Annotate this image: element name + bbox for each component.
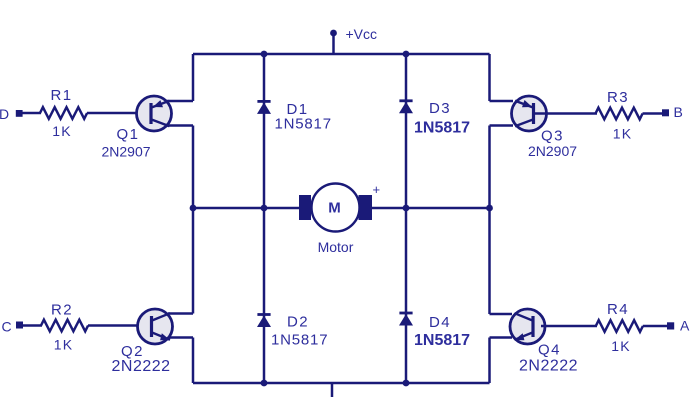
junction dot motor rail / right vertical	[486, 205, 493, 212]
terminal D	[16, 110, 23, 117]
svg-text:R3: R3	[607, 89, 629, 106]
wire C to R2	[23, 324, 43, 327]
wire right vertical upper (Q3 emitter to top rail)	[488, 54, 491, 101]
svg-text:D: D	[0, 106, 9, 122]
junction dot motor rail / left vertical	[190, 205, 197, 212]
svg-text:1K: 1K	[613, 126, 633, 142]
wire +Vcc stub	[332, 33, 335, 54]
svg-text:R4: R4	[607, 301, 629, 318]
wire D2 branch	[263, 208, 266, 383]
svg-text:2N2222: 2N2222	[112, 358, 171, 375]
diode D2 1N5817	[257, 313, 328, 348]
wire Q4 collector stub	[490, 313, 513, 316]
transistor Q4 2N2222 (NPN)	[510, 309, 578, 374]
svg-text:2N2907: 2N2907	[102, 144, 151, 160]
svg-text:2N2907: 2N2907	[528, 143, 577, 159]
resistor R3	[596, 108, 643, 120]
svg-text:1N5817: 1N5817	[275, 115, 332, 132]
transistor Q3 2N2907 (PNP)	[512, 96, 578, 159]
svg-text:+Vcc: +Vcc	[346, 26, 378, 42]
wire motor rail left	[193, 207, 300, 210]
svg-text:2N2222: 2N2222	[519, 357, 578, 374]
svg-text:C: C	[2, 319, 12, 335]
junction dot motor rail / D1-D2	[261, 205, 268, 212]
svg-text:Motor: Motor	[318, 239, 354, 255]
wire R3 to terminal B	[643, 112, 663, 115]
junction dot bottom rail / D2	[261, 380, 268, 387]
junction dot bottom rail / D4	[403, 380, 410, 387]
svg-text:D4: D4	[429, 314, 451, 331]
wire bottom rail	[193, 382, 490, 385]
wire Q2 emitter stub	[168, 336, 193, 339]
+Vcc terminal dot	[330, 30, 337, 37]
svg-text:1N5817: 1N5817	[271, 331, 328, 348]
wire Q3 base to R3	[535, 112, 597, 115]
junction dot top rail / D1	[261, 51, 268, 58]
wire R2 to Q2 base	[88, 324, 152, 327]
wire D3 branch	[405, 54, 408, 208]
svg-text:1N5817: 1N5817	[414, 120, 470, 137]
wire right vertical lower (Q4 emitter to bottom rail)	[488, 338, 491, 384]
wire D1 branch	[263, 54, 266, 208]
wire R4 to terminal A	[643, 325, 667, 328]
wire D4 branch	[405, 208, 408, 383]
svg-text:R2: R2	[51, 302, 73, 319]
wire top rail	[193, 53, 490, 56]
diode D3 1N5817	[399, 100, 470, 137]
svg-text:Q4: Q4	[538, 342, 561, 359]
svg-text:1K: 1K	[611, 338, 631, 354]
junction dot motor rail / D3-D4	[403, 205, 410, 212]
wire right vertical middle (Q3 collector to Q4 collector)	[488, 126, 491, 315]
wire ground stub	[331, 383, 334, 397]
svg-text:Q3: Q3	[541, 128, 564, 145]
resistor R2	[41, 320, 88, 332]
resistor R4	[596, 320, 643, 332]
svg-text:D2: D2	[287, 313, 309, 330]
wire motor rail right	[371, 207, 490, 210]
transistor Q1 2N2907 (PNP)	[102, 96, 172, 160]
junction dot top rail / D3	[403, 51, 410, 58]
terminal B	[662, 109, 669, 116]
terminal C	[16, 322, 23, 329]
diode D4 1N5817	[399, 313, 470, 349]
wire D to R1	[23, 112, 42, 115]
wire left vertical lower (Q2 emitter to bottom rail)	[192, 338, 195, 384]
wire Q1 collector stub	[167, 124, 193, 127]
wire Q2 collector stub	[168, 312, 193, 315]
svg-text:+: +	[373, 182, 381, 197]
resistor R1	[40, 107, 87, 119]
svg-text:A: A	[680, 318, 690, 334]
svg-text:1K: 1K	[52, 123, 72, 139]
wire left vertical upper (Q1 emitter to top rail)	[192, 54, 195, 101]
wire Q4 emitter stub	[490, 336, 513, 339]
wire left vertical middle (Q1 collector to Q2 collector)	[192, 126, 195, 314]
svg-text:1K: 1K	[54, 337, 74, 353]
motor M	[299, 182, 380, 255]
terminal A	[667, 322, 674, 329]
svg-text:M: M	[328, 200, 341, 217]
diode D1 1N5817	[257, 101, 332, 132]
svg-text:B: B	[674, 104, 683, 120]
wire R1 to Q1 base	[87, 112, 151, 115]
svg-text:D3: D3	[429, 100, 451, 117]
svg-text:1N5817: 1N5817	[414, 332, 470, 349]
wire Q3 emitter stub	[490, 100, 514, 103]
svg-text:Q1: Q1	[117, 126, 140, 143]
wire Q4 base to R4	[541, 325, 597, 328]
wire Q1 emitter stub	[167, 100, 193, 103]
svg-text:R1: R1	[51, 87, 73, 104]
transistor Q2 2N2222 (NPN)	[112, 309, 173, 375]
wire Q3 collector stub	[490, 124, 514, 127]
